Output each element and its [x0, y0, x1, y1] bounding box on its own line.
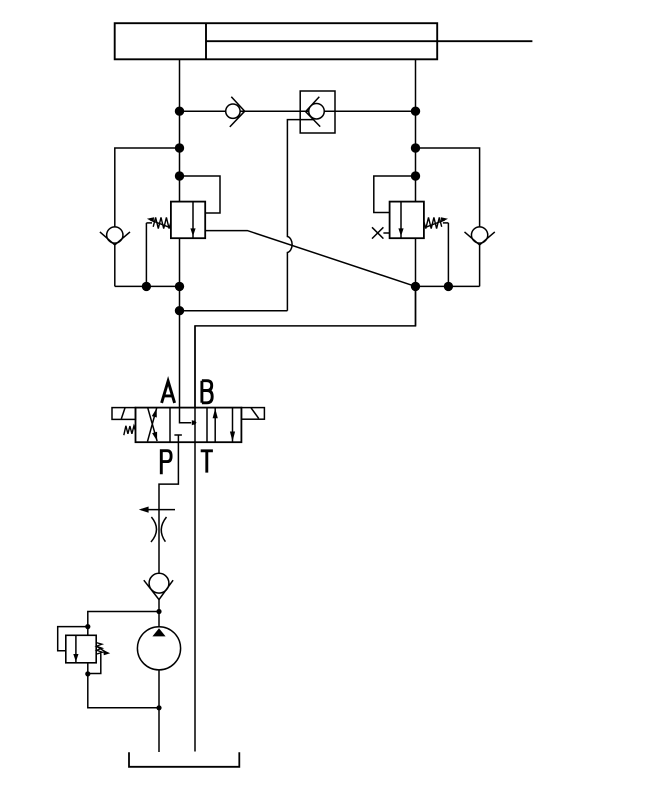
valve left position crossed arrows — [148, 408, 158, 441]
wire left bypass loop — [115, 148, 180, 227]
node dots — [85, 107, 453, 711]
cylinder piston — [205, 23, 207, 59]
wire upper bus segment 2 — [240, 110, 309, 112]
valve centre position — [174, 408, 196, 443]
wire pilot line to pilot check valve with hop — [180, 310, 288, 312]
pilot operated check valve CV2 — [300, 91, 335, 133]
port label B — [202, 381, 212, 403]
pump — [137, 627, 180, 670]
wire left cylinder port — [179, 59, 181, 111]
wire upper bus segment 3 — [324, 110, 415, 112]
wire P line — [159, 442, 178, 573]
check valve CV3 left loop — [100, 227, 130, 245]
relief valve — [58, 612, 159, 708]
solenoid right — [241, 408, 264, 420]
wire left valve output and crossover diagonal — [205, 231, 415, 287]
directional valve body — [136, 408, 242, 443]
spring left of valve — [124, 426, 136, 435]
tank — [129, 752, 239, 767]
counterbalance valve right — [372, 202, 448, 287]
counterbalance valve left — [146, 202, 205, 287]
wire T line through valve to tank — [194, 326, 196, 752]
cylinder barrel — [115, 23, 438, 59]
wire right main vertical — [415, 111, 417, 326]
port label P — [161, 451, 171, 475]
port label A — [162, 381, 175, 403]
check valve CV1 inline — [226, 97, 245, 127]
wire right cylinder port — [415, 59, 417, 111]
check valve CV4 right loop — [465, 227, 495, 245]
valve right position arrows — [213, 408, 236, 443]
wire B line — [195, 286, 416, 407]
counterbalance valve left pilot loop — [180, 176, 221, 213]
port label T — [201, 451, 213, 473]
wire upper bus segment 1 — [180, 110, 226, 112]
solenoid left — [112, 408, 136, 420]
wire pump inlet — [158, 670, 160, 752]
wire left main vertical — [179, 111, 181, 407]
wire pump outlet — [158, 600, 160, 627]
throttle valve — [139, 507, 175, 543]
cylinder rod — [206, 40, 532, 42]
wire right bypass loop — [416, 148, 480, 227]
counterbalance valve right pilot loop — [374, 176, 416, 213]
check valve CV5 pump outlet — [144, 573, 173, 599]
